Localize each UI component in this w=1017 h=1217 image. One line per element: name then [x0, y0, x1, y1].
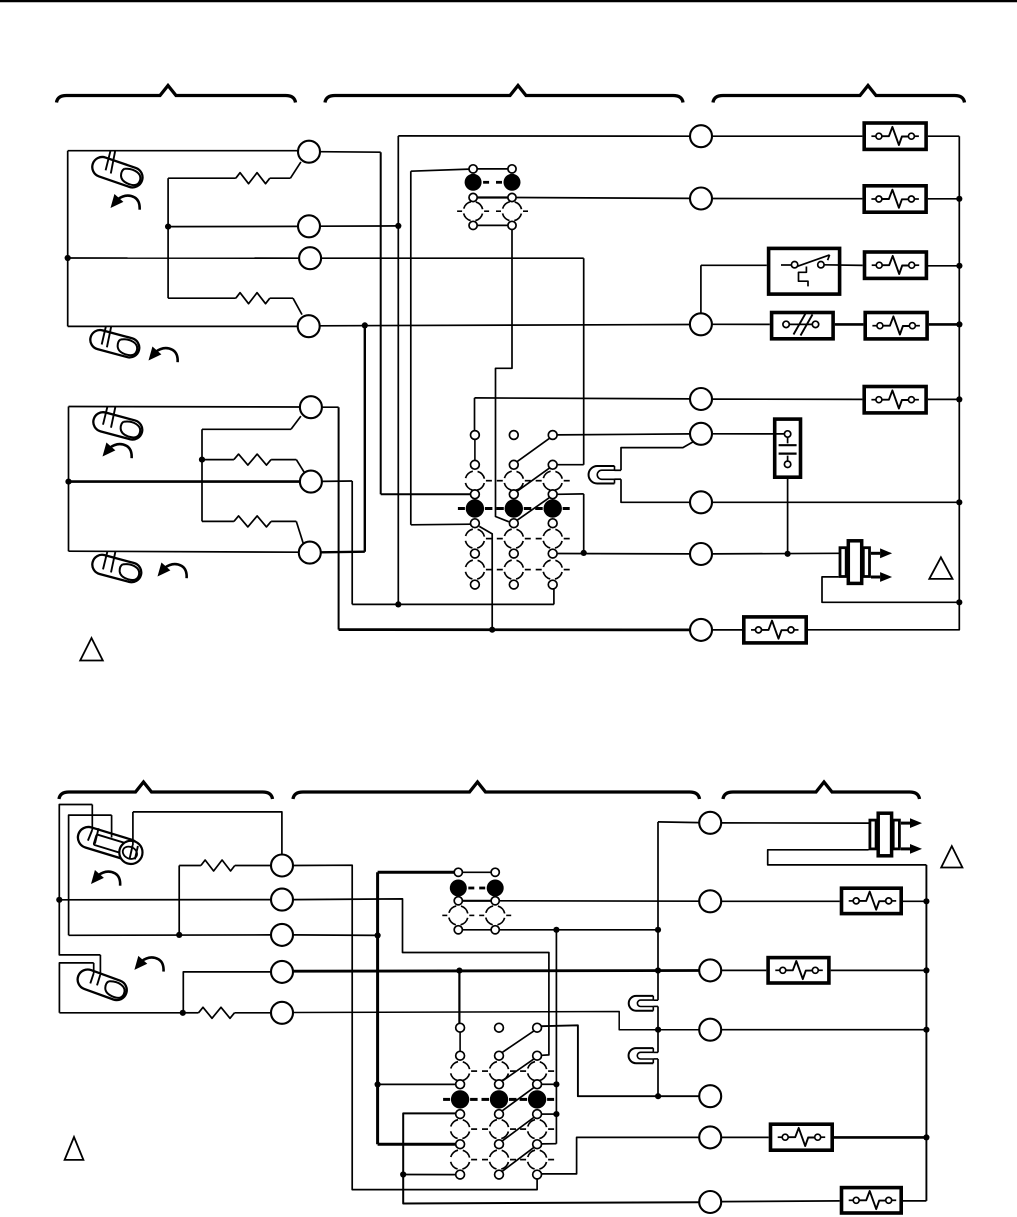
wire: block1 mid rail to T3 [68, 257, 299, 259]
switch contacts inside box [791, 262, 797, 268]
thermostat block 2 outline wire (left vertical) [68, 407, 70, 552]
wire [712, 323, 770, 325]
terminal T3 [299, 247, 321, 269]
wire: R-rail (heavy vertical, bottom diagram) [376, 872, 379, 1144]
wire: left rail to bulb B right electrode [59, 900, 100, 955]
relay contact assembly B (3-pole switching) [465, 471, 484, 490]
wire: col1 row6 drop to common rail [479, 526, 492, 629]
junction dot lamp bus end [655, 1093, 661, 1099]
lamp1 tab wires [653, 999, 658, 1001]
wire [721, 1136, 769, 1138]
wire to bus [928, 398, 959, 400]
junction dot on T4 row [362, 322, 368, 328]
wire: T1 to contact col1 row4 [320, 151, 381, 154]
wire: bottom rail with R2-prime [59, 1012, 182, 1014]
junction dot rail/lamp bus [655, 967, 661, 973]
wire: box drop to fan row [787, 477, 789, 554]
wire: bus bottom corner to load 6R [903, 1200, 926, 1202]
junction dot fan row [785, 551, 791, 557]
wire: bulb A electrode3 to terminal C1L [133, 812, 282, 855]
wire: common rail [322, 406, 339, 408]
warning triangle (bottom-left) [65, 1137, 84, 1160]
contact blade col3r2-col2r4 (D) [502, 1059, 533, 1081]
junction dot col1 row10 branch [400, 1171, 406, 1177]
rotation arrow [149, 347, 178, 363]
junction dot bus row4 [956, 321, 962, 327]
wire to bus [928, 198, 959, 200]
load 5 (fan relay) [864, 387, 926, 413]
terminal C4L [271, 961, 293, 983]
wire: lamp loop [621, 442, 693, 471]
rotation arrow [134, 956, 163, 972]
mercury bulb switch A (long, bottom diagram) [75, 824, 141, 863]
terminal C4R [699, 1085, 721, 1107]
junction dot left rail [56, 897, 62, 903]
terminal C2R [699, 959, 721, 981]
wire: fan return [822, 577, 959, 602]
wire: contact C col2r5 feed [499, 929, 658, 931]
bulb A inner electrode plate [94, 834, 134, 856]
wire to fan [712, 552, 840, 555]
resistor R1-prime (zigzag) [201, 860, 235, 871]
wire to bus [721, 1029, 926, 1031]
contact blade col3r4-col2r6 [517, 498, 549, 521]
wire [235, 865, 271, 867]
transformer/fan symbol (top) [840, 548, 846, 577]
wire: col3 row1 to lamp terminal [557, 434, 690, 435]
resistor R1-prime lead and vertical [178, 866, 180, 935]
relay contact assembly D (bottom, 3-pole) [450, 1061, 469, 1080]
junction dot col3 row6 tap [553, 1111, 559, 1117]
junction dot bus C3R [923, 1027, 929, 1033]
contact blade col3r4-col2r6 (D) [502, 1088, 533, 1111]
warning triangle (top-left) [80, 638, 103, 661]
wire: terminal row5 feed [475, 398, 691, 399]
terminal T1 [298, 141, 320, 163]
warning triangle (top-right) [929, 557, 952, 579]
wire: C5L to terminal C3R row [293, 1012, 699, 1030]
relay switch box (heat relay contact) [769, 248, 840, 294]
page top border line [0, 0, 1017, 2]
rotation arrow [103, 443, 132, 459]
brace: load section (top-right) [713, 86, 965, 103]
wire [721, 900, 840, 902]
load 1 (heat relay) [864, 123, 926, 149]
resistor R3 lead [202, 459, 234, 461]
terminal T4R [690, 313, 712, 335]
resistor R2 (zigzag) [236, 293, 270, 304]
wire: C2L to contact col3 row2 [293, 899, 549, 1055]
mercury bulb leads (bulb 1) [106, 151, 111, 171]
junction dot bus C5R [923, 1134, 929, 1140]
contact blade col3r2-col2r4 [517, 468, 549, 491]
wire: block1 top rail [68, 150, 298, 152]
wire: col3 row1 to terminal C4R [542, 1025, 700, 1096]
relay contact set A (fan relay, 2-pole) [477, 168, 508, 170]
wire: col3 row4/row8 to fan terminal [557, 493, 584, 495]
wire: R3 to terminal T2-prime [271, 459, 296, 461]
load 2R [768, 958, 829, 983]
wire to bus [831, 969, 927, 971]
wire to bus [903, 900, 926, 902]
terminal C1L [271, 855, 293, 877]
junction dot bus row2 [956, 196, 962, 202]
wire: T3 to contact column [321, 257, 584, 259]
junction dot rail/col1 feed [456, 968, 462, 974]
resistor R2-prime (zigzag) [183, 1012, 199, 1014]
wire [712, 629, 742, 631]
mercury bulb switch (heat stage 2) [88, 328, 141, 360]
rotation arrow [111, 194, 140, 210]
wire: contact A col2 to lower assembly [496, 230, 513, 522]
terminal T3-prime [299, 542, 321, 564]
load 5R [771, 1124, 833, 1150]
resistor: heat anticipator R1 lead [168, 177, 236, 179]
wire: tap to terminal T2 [168, 225, 298, 227]
terminal T2 [298, 215, 320, 237]
pilot lamp 2 (bottom) [629, 1048, 654, 1063]
wire [712, 433, 785, 435]
wire: C3L to R-rail [293, 934, 378, 937]
wire to bus [928, 135, 959, 137]
wire: R-rail to col1 row8 [378, 1143, 456, 1146]
wire: col1 row10 feed [403, 1174, 456, 1176]
mercury bulb leads (bulb 3) [103, 407, 107, 425]
bulb A electrode2 lead [111, 815, 113, 837]
wire: R-rail riser (terminal row1 feed) [398, 135, 690, 137]
contact blade col3r6-col2r8 (D) [502, 1118, 533, 1141]
warning triangle (bottom-right) [941, 846, 962, 867]
terminal row7 [690, 491, 712, 513]
junction dot bus C2R [923, 967, 929, 973]
wire: terminal T4R riser to switch box [700, 265, 702, 313]
wire: tap to col3 row4 [542, 1083, 557, 1085]
resistor R4 (zigzag) [234, 516, 271, 527]
bulb A electrode1 inner tick [95, 828, 99, 843]
load 3 (cool relay) [865, 252, 927, 278]
wire: to terminal C2L [59, 899, 271, 901]
pilot lamp 1 (bottom) [629, 996, 654, 1011]
bulb B right electrode lead [99, 955, 101, 975]
junction dot bus row7 [956, 499, 962, 505]
wire: fan return to bus [768, 850, 927, 865]
junction dot on anticipator vertical [165, 224, 171, 230]
junction dot col2r5/lamp bus [655, 927, 661, 933]
wire: bulb B left electrode loop [59, 963, 93, 1013]
lamp bus vertical segments [657, 822, 659, 1000]
wire: block1 bottom rail [68, 325, 298, 327]
wire: contact C col2r3 to terminal C1R [499, 900, 699, 902]
load 1R [842, 888, 902, 913]
terminal row8 (fan) [690, 543, 712, 565]
pilot lamp (system indicator) [589, 466, 615, 484]
resistor R4 lead [202, 520, 234, 522]
wire [721, 969, 766, 971]
resistor R3 (zigzag) [234, 454, 271, 465]
junction dot lamp bus row [655, 1027, 661, 1033]
junction dot R-rail / T2 [395, 223, 401, 229]
wire: lamp to terminal row7 [621, 479, 690, 502]
bus: right supply bus (bottom diagram) [925, 865, 927, 1201]
terminal T2-prime [300, 471, 322, 493]
junction dot block2 anticipator [199, 457, 205, 463]
bulb A electrode1 lead [91, 805, 93, 831]
mercury bulb switch B (bottom diagram) [75, 967, 130, 1003]
terminal row5 [690, 388, 712, 410]
wire: lamp bus top corner to terminal C0R [658, 821, 699, 824]
brace: thermostat section (bottom-left) [59, 782, 273, 799]
junction dot bus row5 [956, 396, 962, 402]
wire [721, 1200, 840, 1203]
wire: anticipator vertical [167, 178, 169, 298]
wire: T2 to relay rail [320, 225, 398, 227]
junction dot R-rail/C3L [375, 932, 381, 938]
N.C. limit switch box [772, 313, 834, 339]
junction dot col3 row4 tap [553, 1081, 559, 1087]
wire: drop to col3 row8 [555, 930, 557, 1144]
terminal C0R (fan row) [699, 812, 721, 834]
wire: bulb A electrode1 loop [59, 805, 92, 900]
wire: R4 to terminal T3-prime [271, 520, 296, 522]
terminal C3L [271, 924, 293, 946]
wire [835, 323, 864, 326]
bulb A end circle with mercury [119, 841, 142, 864]
resistor R2 lead [168, 297, 236, 299]
wire: col1 row6 loop [403, 1113, 699, 1203]
terminal row6 (lamp feed) [690, 423, 712, 445]
wire: block2 mid rail (thick) [69, 480, 300, 483]
wire [712, 198, 862, 200]
junction dot bus C1R [923, 898, 929, 904]
wire [712, 135, 862, 137]
bulb A electrode3 lead [132, 812, 134, 845]
bulb B left electrode lead [93, 963, 95, 974]
wire: R1 to terminal [270, 177, 291, 179]
wire: C4L branch down [183, 972, 271, 1013]
mercury bulb switch (heat stage 1) [90, 154, 146, 190]
junction dot common rail [489, 627, 495, 633]
wire: col1 row1 riser [474, 398, 476, 431]
wire: T2-prime to contact column [322, 480, 352, 482]
brace: load section (bottom-right) [723, 782, 920, 799]
wire to bus [712, 501, 959, 503]
load 6R [842, 1188, 902, 1213]
junction dot bus return [956, 599, 962, 605]
mercury bulb leads (bulb 2) [102, 326, 106, 344]
wire: col3 row10 to terminal C5R row [542, 1137, 700, 1174]
load 6 (clock/common) [744, 617, 806, 643]
wire: col1 row1 riser [458, 971, 460, 1024]
wire: block2 top rail [69, 406, 300, 409]
junction dot block2 left rail [65, 479, 71, 485]
wire: R2 to terminal T4 [270, 297, 293, 299]
wire: block2 bottom rail [69, 551, 299, 552]
mercury bulb switch (cool stage 2) [90, 553, 143, 585]
rotation arrow [158, 563, 187, 579]
wire: C4L long rail (thick) [293, 969, 699, 973]
mercury bulb switch (cool stage 1) [91, 410, 144, 442]
contact blade col3r1-col2r2 [517, 438, 549, 461]
terminal C5R [699, 1126, 721, 1148]
humidifier contact box (capacitor symbol) [775, 419, 801, 477]
terminal row9 [690, 619, 712, 641]
relay contact set C (bottom, 2-pole) [462, 871, 491, 873]
wire: bus bottom corner [808, 602, 959, 630]
wire to bus [927, 265, 959, 267]
thermostat block 1 outline wire (left vertical) [67, 151, 69, 327]
junction dot col3 feed [581, 550, 587, 556]
terminal T4 [298, 315, 320, 337]
resistor R1 (zigzag) [236, 173, 270, 184]
terminal C6R [699, 1191, 721, 1213]
terminal C2L [271, 889, 293, 911]
load 2 [864, 186, 926, 212]
wire: C1L to contact col3 row10 (long loop) [293, 865, 537, 1189]
transformer/fan symbol (bottom) [870, 820, 876, 849]
rotation arrow [91, 870, 120, 886]
wire: T3-prime riser to T4 row [321, 551, 365, 554]
terminal C1R [699, 890, 721, 912]
brace: relay section (bottom-middle) [293, 782, 700, 799]
load 4 (changeover valve) [865, 313, 927, 339]
wire to bus [929, 323, 960, 326]
brace: relay-switching section (top-middle) [325, 86, 683, 103]
N.C. contact symbol [783, 321, 789, 327]
junction dot bus row3 [956, 263, 962, 269]
wire [712, 398, 862, 400]
wire [781, 264, 791, 266]
lamp tab wires [615, 469, 622, 471]
wire to fan [721, 822, 870, 824]
wire: T1-prime branch to anticipator vertical [291, 416, 301, 429]
wire: col3 row2 from T3 [583, 258, 585, 465]
junction dot col2r5/drop [553, 927, 559, 933]
contact blade col3r1-col2r2 (D) [502, 1031, 533, 1052]
junction dot C4L branch [180, 1010, 186, 1016]
wire: bulb A electrode2 loop [69, 815, 112, 935]
wire: common to contact col3 row10 [351, 481, 353, 604]
junction dot R1-prime tap [176, 932, 182, 938]
mercury bulb leads (bulb 4) [103, 551, 107, 569]
terminal row1 (load 1) [690, 125, 712, 147]
wire: C3L rail [69, 934, 271, 936]
wire: col1 row4 feed [378, 1083, 456, 1085]
brace: thermostat section (top-left) [57, 86, 296, 103]
bus: right supply bus (top diagram) [958, 136, 960, 602]
junction dot R-rail/col1 row4 [375, 1081, 381, 1087]
terminal C3R [699, 1019, 721, 1041]
wire from contact A [516, 197, 690, 200]
junction dot: block1 left rail tap [65, 255, 71, 261]
wire to bus (thick) [834, 1136, 926, 1139]
wire: aux riser to upper contact set [411, 169, 469, 171]
lamp2 tab wires [653, 1051, 658, 1053]
wire: tap to col3 row6 [542, 1113, 557, 1115]
terminal C5L [271, 1002, 293, 1024]
terminal row2 (load 2) [690, 188, 712, 210]
junction dot R-rail / common wire [395, 601, 401, 607]
contact blade col3r8-col2r10 (D) [502, 1148, 533, 1172]
terminal T1-prime [300, 396, 322, 418]
wire: T4 row to right portion [320, 325, 690, 326]
wire: R-rail top to contact set C [378, 871, 455, 874]
